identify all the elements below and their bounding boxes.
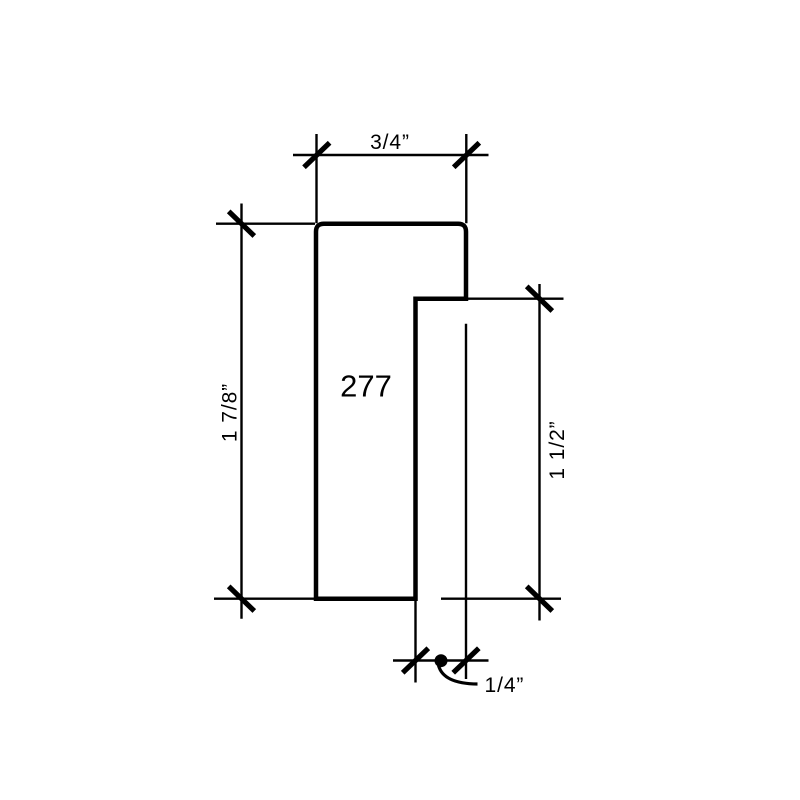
bottom dimension 1/4": right extension line xyxy=(465,324,467,679)
bottom dimension 1/4": left tick xyxy=(403,648,429,673)
right dimension 1 1/2": rotated text xyxy=(546,420,569,479)
right dimension 1 1/2": bottom tick xyxy=(527,586,553,611)
bottom dimension 1/4": text xyxy=(485,674,525,697)
left dimension 1 7/8": top extension line xyxy=(216,222,315,224)
left dimension 1 7/8": bottom extension line xyxy=(214,598,315,600)
left dimension 1 7/8": dimension line xyxy=(240,204,242,619)
top dimension 3/4": right extension line xyxy=(465,134,467,223)
left dimension 1 7/8": top tick xyxy=(229,211,255,236)
svg-text:277: 277 xyxy=(340,368,392,403)
top dimension 3/4": right tick xyxy=(454,143,480,168)
right dimension 1 1/2": top extension line xyxy=(466,298,564,300)
moulding profile outline 277 xyxy=(316,224,466,599)
profile number label 277 xyxy=(340,368,392,403)
bottom dimension 1/4": dimension line xyxy=(393,659,489,661)
right dimension 1 1/2": bottom extension line xyxy=(441,598,561,600)
svg-text:1 1/2”: 1 1/2” xyxy=(546,420,569,479)
top dimension 3/4": text xyxy=(370,131,410,154)
svg-text:1 7/8”: 1 7/8” xyxy=(219,383,242,442)
left dimension 1 7/8": bottom tick xyxy=(229,586,255,611)
right dimension 1 1/2": dimension line xyxy=(538,284,540,621)
top dimension 3/4": left tick xyxy=(304,143,330,168)
left dimension 1 7/8": rotated text xyxy=(219,383,242,442)
bottom dimension 1/4": left extension line xyxy=(414,600,416,683)
top dimension 3/4": left extension line xyxy=(315,134,317,223)
top dimension 3/4": dimension line xyxy=(293,154,489,156)
svg-text:3/4”: 3/4” xyxy=(370,131,410,154)
bottom dimension 1/4": right tick xyxy=(453,648,479,673)
bottom dimension 1/4": center dot xyxy=(435,654,448,667)
right dimension 1 1/2": top tick xyxy=(527,286,553,311)
svg-text:1/4”: 1/4” xyxy=(485,674,525,697)
bottom dimension 1/4": leader curve xyxy=(439,666,478,685)
